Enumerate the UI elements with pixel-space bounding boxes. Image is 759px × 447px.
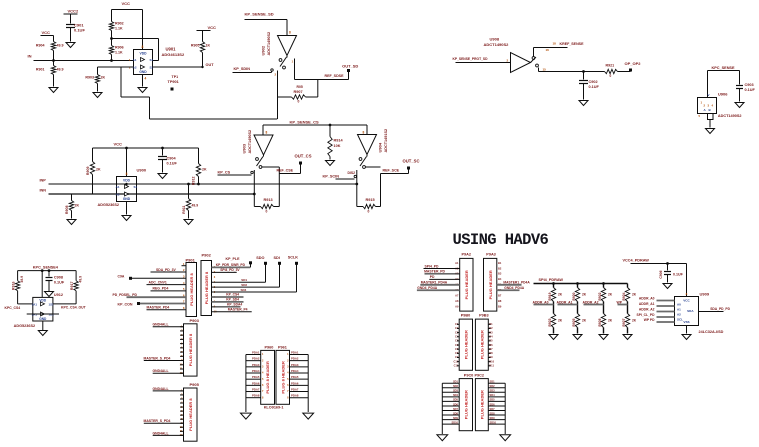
svg-text:1S1: 1S1 (49, 303, 55, 307)
svg-text:P961: P961 (278, 346, 287, 350)
svg-text:SD4: SD4 (490, 393, 496, 397)
svg-text:P901: P901 (186, 258, 196, 263)
svg-text:SD10: SD10 (452, 420, 459, 424)
svg-text:0.1UF: 0.1UF (673, 273, 684, 277)
svg-text:SD2: SD2 (490, 384, 496, 388)
svg-text:MASTER1_PD4A: MASTER1_PD4A (421, 280, 448, 284)
svg-text:4: 4 (145, 77, 147, 81)
svg-text:KP_PLE: KP_PLE (226, 257, 241, 261)
svg-text:R916: R916 (12, 282, 16, 291)
svg-text:SD5: SD5 (453, 398, 459, 402)
svg-text:R911: R911 (182, 206, 186, 214)
svg-text:A1: A1 (677, 308, 681, 312)
svg-text:SPI4_PD_3V: SPI4_PD_3V (220, 268, 240, 272)
svg-text:PLUG HEADER: PLUG HEADER (479, 330, 484, 359)
svg-text:PLUG 8 HEADER: PLUG 8 HEADER (265, 361, 270, 394)
svg-text:ADG5236S2: ADG5236S2 (98, 203, 120, 207)
svg-text:VSS: VSS (683, 320, 689, 324)
svg-text:P9A3: P9A3 (486, 253, 496, 257)
svg-text:PDA5: PDA5 (291, 375, 299, 379)
svg-text:PD_PDSEL_PD: PD_PDSEL_PD (113, 293, 138, 297)
svg-text:PDA7: PDA7 (291, 388, 299, 392)
svg-text:PLUG HEADER 8: PLUG HEADER 8 (188, 333, 193, 366)
svg-text:R914: R914 (334, 139, 344, 143)
svg-text:SDA: SDA (687, 309, 694, 313)
svg-text:VDD: VDD (123, 179, 131, 183)
svg-text:OUT: OUT (206, 63, 215, 67)
svg-text:R922: R922 (598, 292, 602, 300)
svg-text:ADC_CNV1: ADC_CNV1 (149, 280, 167, 284)
svg-text:SD8: SD8 (453, 411, 459, 415)
svg-text:KPC_SENSE: KPC_SENSE (712, 66, 735, 70)
svg-text:B4: B4 (498, 277, 502, 281)
svg-text:2K: 2K (558, 319, 563, 323)
svg-text:A2: A2 (677, 313, 681, 317)
svg-text:VCC: VCC (42, 30, 51, 35)
svg-text:2K: 2K (608, 293, 613, 297)
svg-text:PLUG HEADER 8: PLUG HEADER 8 (189, 273, 194, 306)
svg-text:REF_SDSE: REF_SDSE (325, 74, 345, 78)
svg-text:R915: R915 (366, 198, 375, 202)
svg-text:R903: R903 (85, 76, 94, 80)
svg-text:VCC: VCC (114, 142, 123, 147)
svg-text:P902: P902 (202, 253, 212, 258)
svg-text:R925: R925 (572, 318, 576, 326)
svg-text:OP_OP2: OP_OP2 (625, 61, 642, 66)
svg-text:P903: P903 (190, 318, 200, 323)
svg-text:SD1: SD1 (490, 380, 496, 384)
svg-text:KP_SENSE_SD: KP_SENSE_SD (245, 12, 274, 17)
svg-text:U908: U908 (490, 37, 500, 42)
svg-text:GND4ALL: GND4ALL (153, 323, 169, 327)
svg-text:R906: R906 (115, 46, 124, 50)
svg-text:ADG5236S2: ADG5236S2 (14, 324, 36, 328)
svg-text:2K: 2K (608, 319, 613, 323)
svg-text:PLUG HEADER: PLUG HEADER (463, 390, 468, 419)
svg-text:B3: B3 (498, 272, 502, 276)
svg-text:10K: 10K (334, 144, 341, 148)
svg-text:2K: 2K (632, 293, 637, 297)
svg-text:VCC4_PDRAW: VCC4_PDRAW (623, 259, 650, 263)
svg-text:P9A2: P9A2 (462, 253, 472, 257)
svg-text:KP_SENSE_PROT_SD: KP_SENSE_PROT_SD (453, 57, 489, 61)
svg-text:MASTER_PD: MASTER_PD (424, 270, 445, 274)
svg-text:S1: S1 (150, 58, 154, 62)
svg-text:PDA1: PDA1 (252, 351, 260, 355)
svg-text:S1: S1 (134, 185, 138, 189)
svg-text:GND4ALL: GND4ALL (153, 431, 169, 435)
svg-text:8: 8 (142, 45, 144, 49)
svg-text:A2: A2 (116, 193, 120, 197)
svg-text:ADDR_A1: ADDR_A1 (557, 300, 573, 304)
svg-text:OUT_SC: OUT_SC (403, 159, 420, 164)
svg-text:VCC: VCC (122, 1, 131, 6)
svg-text:PLUG HEADER: PLUG HEADER (488, 270, 493, 299)
svg-text:SPI4_PDRAW: SPI4_PDRAW (539, 278, 564, 282)
svg-text:2K: 2K (582, 319, 587, 323)
svg-text:R926: R926 (598, 318, 602, 326)
svg-text:KP_CON: KP_CON (118, 303, 133, 307)
svg-text:GND: GND (139, 70, 147, 74)
svg-text:0: 0 (266, 210, 268, 214)
svg-text:PLUG HEADER: PLUG HEADER (464, 270, 469, 299)
svg-text:U909: U909 (700, 292, 710, 297)
svg-text:KPC_CS4: KPC_CS4 (5, 306, 21, 310)
svg-text:PLUG 8 HEADER: PLUG 8 HEADER (280, 361, 285, 394)
svg-text:GND4ALL: GND4ALL (153, 387, 169, 391)
svg-text:R904: R904 (36, 44, 45, 48)
svg-text:SD1: SD1 (453, 380, 459, 384)
svg-text:ADCT1490S2: ADCT1490S2 (484, 42, 510, 47)
svg-text:SD2: SD2 (241, 283, 247, 287)
svg-text:49.9: 49.9 (57, 68, 64, 72)
svg-text:USING HADV6: USING HADV6 (453, 231, 549, 249)
svg-text:REF_CSE: REF_CSE (277, 169, 294, 173)
svg-text:R921: R921 (606, 64, 615, 68)
svg-text:SPI_CL_PD: SPI_CL_PD (637, 313, 656, 317)
svg-text:C904: C904 (167, 157, 177, 161)
svg-text:WP: WP (617, 300, 623, 304)
svg-text:B2: B2 (498, 266, 502, 270)
svg-text:A0: A0 (677, 303, 681, 307)
svg-text:KP_SCIN: KP_SCIN (323, 175, 340, 179)
svg-text:KP_SD4: KP_SD4 (226, 298, 239, 302)
svg-text:ADDR_A2: ADDR_A2 (583, 300, 599, 304)
svg-text:U901: U901 (166, 47, 177, 52)
svg-text:0.1UF: 0.1UF (74, 28, 85, 33)
svg-text:18: 18 (553, 42, 557, 46)
svg-text:PDA6: PDA6 (291, 381, 299, 385)
svg-text:U912: U912 (54, 293, 63, 297)
svg-text:KP_SDA4: KP_SDA4 (227, 303, 242, 307)
svg-text:24LC32A-I/SD: 24LC32A-I/SD (699, 330, 724, 334)
svg-text:R909: R909 (86, 167, 90, 176)
svg-text:SD8: SD8 (490, 411, 496, 415)
svg-text:SDI: SDI (274, 256, 280, 260)
svg-text:SCLK: SCLK (288, 256, 299, 260)
svg-text:PDA4: PDA4 (252, 369, 260, 373)
svg-text:VCC: VCC (208, 25, 217, 30)
svg-text:GND: GND (39, 317, 47, 321)
svg-text:1K: 1K (206, 44, 211, 48)
svg-text:8: 8 (266, 131, 268, 135)
svg-text:MASTER_S_PD4: MASTER_S_PD4 (144, 419, 171, 423)
svg-text:PLUG HEADER 8: PLUG HEADER 8 (188, 398, 193, 431)
svg-text:C903: C903 (745, 83, 754, 87)
svg-text:PD: PD (430, 275, 435, 279)
svg-text:49.9: 49.9 (79, 276, 83, 283)
svg-text:KPC_SENSE4: KPC_SENSE4 (33, 266, 59, 270)
svg-text:1.1K: 1.1K (115, 51, 123, 55)
svg-text:PDA2: PDA2 (291, 357, 299, 361)
svg-text:P9C0: P9C0 (464, 373, 474, 377)
svg-text:0.1UF: 0.1UF (745, 88, 756, 92)
svg-text:REF_SCE: REF_SCE (383, 169, 400, 173)
svg-text:GND4_PD4A: GND4_PD4A (417, 286, 437, 290)
svg-text:8: 8 (363, 131, 365, 135)
svg-text:2K: 2K (558, 293, 563, 297)
svg-text:U906: U906 (718, 92, 728, 97)
svg-text:R901: R901 (36, 68, 45, 72)
svg-text:R907: R907 (294, 90, 303, 94)
svg-text:C908: C908 (54, 276, 63, 280)
svg-text:2K: 2K (75, 204, 80, 208)
svg-text:VCC: VCC (683, 299, 690, 303)
svg-text:R908: R908 (65, 206, 69, 215)
svg-text:SDO: SDO (256, 256, 264, 260)
svg-text:0: 0 (298, 100, 300, 104)
svg-text:0: 0 (368, 210, 370, 214)
svg-text:SD9: SD9 (453, 416, 459, 420)
svg-text:MASTER1_PD4A: MASTER1_PD4A (503, 280, 530, 284)
svg-text:C902: C902 (589, 80, 598, 84)
svg-text:P960: P960 (265, 346, 274, 350)
svg-text:V: V (708, 93, 710, 97)
svg-text:ADCT1490S2: ADCT1490S2 (248, 130, 252, 154)
svg-text:C9A: C9A (118, 274, 125, 278)
svg-text:ADCT1491S2: ADCT1491S2 (384, 129, 388, 153)
svg-text:PDA5: PDA5 (252, 375, 260, 379)
svg-text:B1: B1 (498, 261, 502, 265)
svg-text:KP_CS: KP_CS (218, 171, 231, 175)
svg-text:SD6: SD6 (490, 402, 496, 406)
svg-text:8: 8 (126, 172, 128, 176)
svg-text:ADCT1490S2: ADCT1490S2 (267, 32, 271, 56)
svg-text:0: 0 (610, 74, 612, 78)
svg-text:16: 16 (546, 48, 550, 52)
svg-text:TP1: TP1 (172, 75, 179, 79)
svg-text:SD4: SD4 (241, 288, 247, 292)
svg-text:PLUG HEADER: PLUG HEADER (463, 330, 468, 359)
svg-text:GND4_PD4A: GND4_PD4A (504, 286, 524, 290)
svg-text:2K: 2K (96, 168, 101, 172)
svg-text:2K: 2K (202, 168, 207, 172)
svg-text:PDA4: PDA4 (291, 369, 299, 373)
svg-text:DIS2: DIS2 (348, 171, 356, 175)
svg-text:U903: U903 (242, 143, 247, 153)
svg-text:R919: R919 (548, 292, 552, 300)
svg-text:R913: R913 (264, 198, 273, 202)
svg-text:0.1UF: 0.1UF (589, 85, 600, 89)
svg-text:PDA2: PDA2 (252, 357, 260, 361)
svg-text:SD5: SD5 (490, 398, 496, 402)
svg-text:A8: A8 (455, 299, 459, 303)
svg-text:PDA6: PDA6 (252, 381, 260, 385)
svg-text:P905: P905 (190, 382, 200, 387)
svg-text:TP901: TP901 (168, 80, 179, 84)
svg-text:8: 8 (289, 31, 291, 35)
svg-text:R927: R927 (622, 318, 626, 326)
svg-text:P9B0: P9B0 (461, 313, 471, 317)
svg-text:OUT_SD: OUT_SD (342, 63, 358, 68)
svg-text:MASTER_P4: MASTER_P4 (228, 308, 248, 312)
svg-text:49.9: 49.9 (20, 276, 24, 283)
svg-text:KP_SENSE_CS: KP_SENSE_CS (290, 120, 319, 125)
svg-text:PDA3: PDA3 (252, 363, 260, 367)
svg-text:1.1K: 1.1K (115, 27, 123, 31)
svg-text:15: 15 (543, 68, 547, 72)
svg-text:ADDR_A0: ADDR_A0 (533, 300, 549, 304)
svg-text:KREF_SENSE: KREF_SENSE (560, 42, 585, 46)
svg-text:U904: U904 (378, 142, 383, 152)
svg-text:A9: A9 (455, 304, 459, 308)
svg-text:SD2: SD2 (453, 384, 459, 388)
svg-text:MASTER_S_PD4: MASTER_S_PD4 (144, 356, 171, 360)
svg-text:SD6: SD6 (453, 402, 459, 406)
svg-text:R920: R920 (572, 292, 576, 300)
svg-text:ADDR_A2: ADDR_A2 (639, 308, 655, 312)
svg-text:KP_PDR_SWR_PD: KP_PDR_SWR_PD (216, 263, 246, 267)
svg-text:PDA8: PDA8 (252, 394, 260, 398)
svg-text:U902: U902 (261, 45, 266, 55)
svg-text:INP: INP (40, 179, 47, 183)
svg-text:R912: R912 (192, 177, 196, 186)
svg-text:2K: 2K (632, 319, 637, 323)
svg-text:SD3: SD3 (490, 389, 496, 393)
svg-text:ADCT1490S2: ADCT1490S2 (718, 114, 742, 118)
svg-text:PDA1: PDA1 (291, 351, 299, 355)
svg-text:SDA_PD_3V: SDA_PD_3V (156, 268, 177, 272)
svg-text:SD1: SD1 (241, 278, 247, 282)
svg-text:SPI4_PD: SPI4_PD (425, 264, 439, 268)
svg-text:KPC_CS4_OUT: KPC_CS4_OUT (61, 305, 87, 309)
svg-text:R902: R902 (115, 22, 124, 26)
svg-text:MASTER_PD4: MASTER_PD4 (147, 306, 170, 310)
svg-text:PLUG HEADER: PLUG HEADER (479, 390, 484, 419)
svg-text:R924: R924 (622, 292, 626, 300)
svg-text:SCL: SCL (677, 318, 683, 322)
svg-text:SD7: SD7 (490, 407, 496, 411)
svg-text:R923: R923 (548, 318, 552, 326)
svg-text:R917: R917 (70, 282, 74, 291)
svg-text:PDA8: PDA8 (291, 394, 299, 398)
svg-text:A1: A1 (116, 185, 120, 189)
svg-text:IN: IN (28, 54, 32, 59)
svg-text:ADDR_A0: ADDR_A0 (639, 297, 655, 301)
svg-text:PDA3: PDA3 (291, 363, 299, 367)
svg-text:SDA_PD_PD: SDA_PD_PD (710, 307, 730, 311)
svg-text:GND4ALL: GND4ALL (153, 369, 169, 373)
svg-text:0.1UF: 0.1UF (54, 281, 65, 285)
svg-text:C906: C906 (659, 270, 663, 278)
svg-text:49.9: 49.9 (57, 44, 64, 48)
svg-text:B8: B8 (498, 299, 502, 303)
svg-text:SD4: SD4 (453, 393, 459, 397)
svg-text:2K: 2K (582, 293, 587, 297)
svg-text:SD9: SD9 (490, 416, 496, 420)
svg-text:A1: A1 (133, 58, 137, 62)
svg-text:SD7: SD7 (453, 407, 459, 411)
svg-text:REG_PD4: REG_PD4 (153, 287, 169, 291)
svg-text:A1: A1 (455, 261, 459, 265)
svg-text:1A1: 1A1 (32, 303, 38, 307)
svg-text:U900: U900 (137, 168, 147, 173)
svg-text:B7: B7 (498, 294, 502, 298)
svg-text:ADDR_A1: ADDR_A1 (639, 302, 655, 306)
svg-text:VDD: VDD (140, 52, 148, 56)
svg-text:49.9: 49.9 (192, 204, 199, 208)
svg-text:0.1UF: 0.1UF (167, 162, 178, 166)
svg-text:ADG4613S2: ADG4613S2 (162, 52, 185, 57)
svg-text:KP_CS4: KP_CS4 (226, 293, 239, 297)
svg-text:OUT_CS: OUT_CS (295, 154, 312, 159)
svg-text:A7: A7 (455, 294, 459, 298)
svg-text:B9: B9 (498, 304, 502, 308)
svg-text:SD3: SD3 (453, 389, 459, 393)
svg-text:PLUG HEADER 8: PLUG HEADER 8 (204, 271, 209, 304)
svg-text:PDA7: PDA7 (252, 388, 260, 392)
svg-text:R905: R905 (191, 44, 200, 48)
svg-text:VCC2: VCC2 (68, 9, 79, 14)
svg-text:KLO9169-1: KLO9169-1 (264, 405, 284, 409)
svg-text:GND: GND (123, 197, 131, 201)
svg-text:P9C2: P9C2 (475, 373, 485, 377)
svg-text:P9B3: P9B3 (479, 313, 489, 317)
svg-text:INN: INN (40, 189, 47, 193)
svg-text:SD10: SD10 (490, 420, 497, 424)
svg-text:KP_SDIN: KP_SDIN (234, 67, 251, 71)
svg-text:WP PD: WP PD (644, 318, 655, 322)
svg-text:R05: R05 (297, 85, 303, 89)
svg-text:2K: 2K (101, 76, 106, 80)
